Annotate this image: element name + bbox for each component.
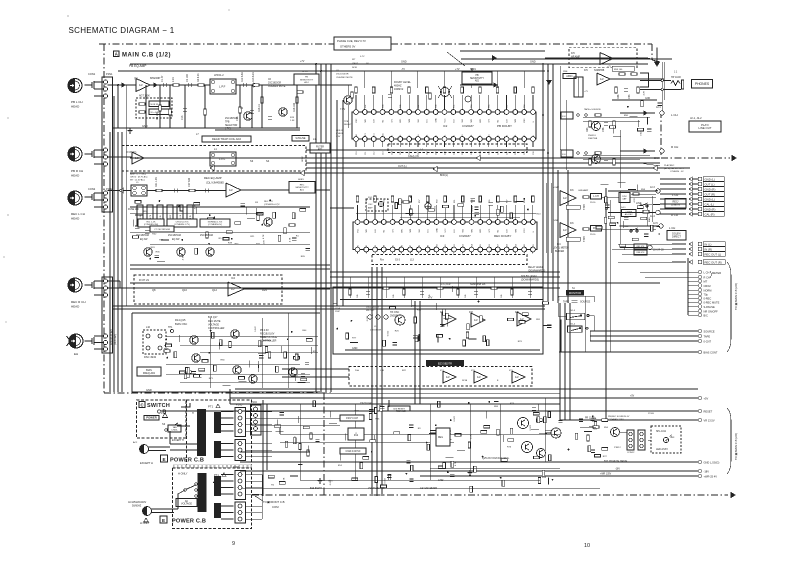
svg-text:IC4: IC4 — [231, 277, 236, 280]
vertical wires below IC3 to power section — [371, 267, 373, 496]
svg-text:PB L CH: PB L CH — [71, 100, 83, 104]
svg-text:WT : (1.3V AC): WT : (1.3V AC) — [130, 179, 145, 182]
op-amp IC1 L-ch — [136, 79, 150, 92]
svg-text:GT2: GT2 — [489, 229, 491, 233]
cue mute parts — [261, 97, 264, 103]
resistor column PB L — [159, 105, 162, 111]
IC3 top components — [356, 196, 359, 202]
svg-text:POWER C.B: POWER C.B — [172, 519, 206, 525]
svg-text:4.7K: 4.7K — [634, 198, 636, 203]
op-amp IC6 R meter buffer — [560, 223, 576, 238]
svg-text:0.022: 0.022 — [472, 205, 474, 211]
svg-text:PHONES: PHONES — [695, 82, 710, 86]
svg-text:W: W — [533, 135, 535, 137]
jack vertical bus — [661, 62, 663, 111]
svg-text:PLAY,REC: PLAY,REC — [664, 164, 675, 167]
connector group upper right pins — [689, 177, 692, 181]
svg-text:GND: GND — [530, 61, 536, 64]
svg-text:IC2: IC2 — [443, 124, 448, 128]
svg-text:SFTA: SFTA — [462, 379, 468, 382]
svg-text:1/2: 1/2 — [477, 375, 481, 379]
HX block frame — [333, 287, 543, 354]
svg-text:0.022: 0.022 — [367, 315, 369, 321]
svg-text:POWER: POWER — [146, 416, 157, 420]
arrow on y85 line at IC2 — [460, 84, 494, 86]
wire LPF to dolby — [236, 84, 300, 86]
svg-text:S1-4: S1-4 — [571, 324, 576, 326]
svg-text:J2-1, J2-2: J2-1, J2-2 — [690, 116, 702, 120]
board outline MAIN C.B left edge — [103, 44, 105, 393]
bias cont row — [698, 350, 702, 354]
svg-text:B4: B4 — [384, 245, 386, 247]
monitor long verticals — [605, 188, 607, 420]
wires into R CH block — [108, 287, 134, 289]
svg-text:4.7K: 4.7K — [284, 477, 286, 482]
svg-text:CS37 0.047: CS37 0.047 — [346, 418, 359, 420]
svg-text:SFR2: SFR2 — [302, 156, 304, 162]
transistor Q18 — [249, 375, 257, 383]
svg-text:(OTHERS:0V): (OTHERS:0V) — [208, 224, 222, 226]
op-amp IC6 L meter buffer — [560, 191, 576, 206]
svg-text:SFR1: SFR1 — [302, 71, 308, 73]
svg-text:TO ▣ MAIN C.B (2/2): TO ▣ MAIN C.B (2/2) — [734, 283, 738, 310]
svg-text:J2-2: J2-2 — [654, 157, 659, 160]
svg-text:DEAD TRAP COIL ADJ: DEAD TRAP COIL ADJ — [212, 137, 242, 141]
svg-text:Q8: Q8 — [152, 288, 156, 292]
cal osc circle cluster — [425, 203, 431, 209]
svg-text:TAPE: TAPE — [704, 334, 711, 338]
svg-text:0.022: 0.022 — [454, 415, 456, 421]
voltage reg transistor Q27 — [551, 428, 561, 438]
margin specks — [7, 117, 8, 118]
svg-text:C12: C12 — [374, 152, 376, 155]
svg-text:B27,2B MUTE DRIVE: B27,2B MUTE DRIVE — [604, 460, 628, 463]
dashed box L13 below IC3 — [372, 255, 527, 265]
svg-text:H ONLY: H ONLY — [178, 472, 188, 476]
transformer PT2 secondary winding A — [214, 476, 221, 496]
wires to meter rows — [640, 271, 698, 273]
svg-text:T2: T2 — [506, 135, 508, 137]
svg-text:NGT 100K: NGT 100K — [139, 96, 150, 98]
svg-text:CA1: CA1 — [381, 133, 384, 137]
svg-text:C10: C10 — [356, 152, 358, 155]
vertical wires right-bottom — [559, 303, 561, 420]
svg-text:CRO2 : (8.7V AC): CRO2 : (8.7V AC) — [130, 176, 148, 179]
svg-text:NOR W: NOR W — [151, 104, 159, 106]
svg-text:+5V: +5V — [630, 396, 635, 398]
wires lower opamp box — [282, 368, 349, 370]
IC3 top pins — [355, 220, 360, 225]
REC OUT wires below IC3 — [330, 271, 560, 273]
svg-text:HX OSC: HX OSC — [366, 310, 375, 312]
REC amp lower cluster — [247, 218, 255, 220]
svg-text:CAL(L) IN: CAL(L) IN — [408, 155, 419, 158]
svg-text:(OTHERS:1.7V): (OTHERS:1.7V) — [174, 224, 190, 226]
svg-text:CAL (R): CAL (R) — [705, 213, 715, 217]
label PHASE CUE note — [334, 37, 391, 50]
svg-text:R55: R55 — [489, 105, 491, 108]
label 9-PAUSE — [292, 136, 309, 142]
GND rail HX block — [345, 349, 540, 351]
svg-text:B11: B11 — [445, 244, 447, 247]
wire to J2-1 — [620, 112, 655, 114]
svg-text:B6: B6 — [401, 245, 403, 247]
svg-text:C13: C13 — [181, 115, 184, 120]
svg-text:LIM: LIM — [506, 229, 508, 233]
HP AMP dashed box — [569, 48, 637, 68]
svg-text:2TGB: 2TGB — [648, 413, 654, 415]
svg-text:150P: 150P — [335, 311, 340, 313]
svg-text:P1N4: P1N4 — [251, 402, 257, 404]
svg-text:1/2: 1/2 — [229, 188, 233, 192]
meter feedback rects — [566, 205, 580, 209]
svg-text:AMP: AMP — [368, 207, 373, 210]
svg-text:NF8: NF8 — [410, 229, 412, 233]
transformer PT2 secondary winding B — [214, 503, 221, 518]
svg-text:SWITCH: SWITCH — [147, 403, 170, 409]
svg-text:OTHERS 0V: OTHERS 0V — [340, 45, 355, 49]
svg-text:R CH LN: R CH LN — [139, 279, 149, 282]
power supply cluster parts — [426, 442, 428, 444]
board outline right exit with arrow — [661, 157, 730, 159]
svg-text:GND: GND — [645, 98, 650, 100]
connector P1N4 column right of power — [251, 405, 262, 435]
svg-text:(C)L NJM4558D: (C)L NJM4558D — [206, 182, 224, 185]
svg-text:R12 6.8K: R12 6.8K — [241, 72, 244, 82]
svg-text:R0M 8.2K: R0M 8.2K — [396, 411, 407, 413]
transistor Q4 — [279, 108, 287, 116]
svg-text:C45: C45 — [357, 295, 359, 298]
svg-text:L CH: L CH — [704, 270, 710, 274]
erase coil L10 block — [143, 330, 166, 354]
wire head to REC amp — [108, 190, 226, 192]
svg-text:S4-1: S4-1 — [621, 207, 626, 209]
svg-text:B16 Q17: B16 Q17 — [208, 316, 218, 319]
voltage reg transistor Q26 — [522, 442, 533, 453]
svg-text:J2-1: J2-1 — [656, 106, 661, 109]
transistor Q14 — [190, 336, 198, 344]
svg-text:TPB: TPB — [225, 122, 230, 124]
vertical bus right-center — [542, 64, 544, 301]
svg-text:B7: B7 — [410, 245, 412, 247]
vertical wires hp to lineout — [559, 66, 561, 150]
svg-text:B16: B16 — [489, 244, 491, 247]
above IC3 cluster — [458, 204, 464, 207]
svg-text:R58: R58 — [617, 94, 620, 99]
board outline MAIN bottom edge — [104, 392, 333, 394]
svg-text:CX20187: CX20187 — [459, 234, 471, 238]
svg-text:2SC1815GR: 2SC1815GR — [200, 235, 213, 237]
svg-text:B/C: B/C — [704, 313, 708, 317]
vertical wires center-bottom — [414, 301, 416, 404]
line out network S1-2 — [561, 150, 573, 157]
svg-text:SK1: SK1 — [418, 119, 420, 123]
svg-text:+7V: +7V — [428, 297, 433, 300]
labels under REC cluster — [138, 219, 164, 227]
svg-text:SPL-1011: SPL-1011 — [656, 431, 667, 433]
svg-text:R43: R43 — [382, 105, 384, 108]
svg-text:(THE B): (THE B) — [336, 133, 344, 135]
svg-text:C: C — [140, 403, 143, 408]
svg-text:B1: B1 — [357, 245, 359, 247]
svg-text:HP JACK: HP JACK — [671, 76, 681, 79]
L5 coil block — [131, 185, 147, 196]
svg-text:EXCEPT H: EXCEPT H — [172, 439, 184, 442]
REC R CH head — [68, 278, 82, 292]
svg-text:S1-2: S1-2 — [562, 154, 567, 156]
svg-text:2SK184GR: 2SK184GR — [370, 330, 381, 332]
right bracket upper — [727, 262, 731, 352]
svg-text:G25 RESET: G25 RESET — [393, 408, 406, 410]
svg-text:R14,Q15: R14,Q15 — [175, 318, 186, 322]
svg-text:TAPE⇒SOURCE: TAPE⇒SOURCE — [584, 108, 601, 111]
svg-text:IC7~,IC9: IC7~,IC9 — [440, 282, 451, 286]
svg-text:B9: B9 — [428, 245, 430, 247]
svg-text:ADJ: ADJ — [304, 81, 308, 84]
bottom band long wires — [235, 388, 698, 390]
svg-text:PB R CH: PB R CH — [71, 169, 83, 173]
svg-text:PBC: PBC — [356, 118, 358, 123]
svg-text:H1: H1 — [427, 135, 429, 137]
svg-text:ADJ: ADJ — [475, 80, 479, 83]
svg-text:BR2: BR2 — [480, 229, 482, 233]
wire R-ch amp to LPF — [144, 157, 210, 159]
svg-text:2.2K: 2.2K — [172, 77, 175, 82]
svg-text:CON2: CON2 — [88, 187, 96, 191]
svg-text:C45: C45 — [393, 295, 395, 298]
wires top right corner — [545, 57, 648, 59]
svg-text:L1: L1 — [453, 135, 455, 137]
svg-text:HP AMP: HP AMP — [571, 56, 580, 59]
bottom band wires left join — [229, 389, 231, 404]
meter wires — [602, 196, 656, 198]
svg-text:P1N6: P1N6 — [233, 466, 240, 469]
svg-text:Q12: Q12 — [212, 288, 217, 292]
svg-text:C30: C30 — [533, 152, 535, 155]
svg-text:IC9: IC9 — [515, 311, 519, 314]
svg-text:-18V: -18V — [615, 469, 620, 471]
svg-text:B18: B18 — [506, 244, 508, 247]
svg-text:1/2: 1/2 — [474, 318, 478, 322]
svg-text:1/2: 1/2 — [563, 196, 567, 200]
bias osc cluster — [268, 352, 271, 358]
IC3 bottom pins — [355, 247, 360, 252]
svg-text:C58: C58 — [602, 127, 605, 132]
transformer PT1 secondary winding A — [214, 412, 221, 433]
svg-text:160MV2: 160MV2 — [394, 88, 404, 91]
svg-text:BNC(L): BNC(L) — [440, 174, 448, 177]
svg-text:SK1: SK1 — [419, 229, 421, 233]
op-amp IC9a — [517, 312, 531, 326]
svg-text:S-PAUSE: S-PAUSE — [704, 305, 715, 309]
svg-text:TAPE: TAPE — [563, 301, 569, 304]
IC2 pin top components — [355, 87, 358, 93]
long wires below IC3 row2 — [130, 282, 660, 284]
svg-text:NJM4558 HX: NJM4558 HX — [470, 282, 486, 286]
+5V row — [698, 396, 702, 400]
transistor Q2 — [244, 112, 252, 120]
svg-text:NOR(1D,6F AC): NOR(1D,6F AC) — [110, 329, 113, 345]
top bus extension right — [461, 58, 672, 60]
label REC LINE IN — [665, 199, 686, 209]
svg-text:C15: C15 — [400, 152, 402, 155]
svg-text:BR1: BR1 — [400, 119, 402, 123]
warning triangle plug — [144, 518, 149, 522]
svg-text:REC EQ.AMP: REC EQ.AMP — [204, 176, 222, 180]
gray separator hatched bus — [173, 465, 252, 468]
label E POWER C.B lower — [160, 516, 167, 523]
svg-text:GND: GND — [142, 124, 148, 128]
svg-text:OUT (R): OUT (R) — [705, 193, 716, 197]
svg-text:REG: REG — [438, 437, 443, 439]
svg-text:CRO2: CRO2 — [704, 284, 712, 288]
svg-text:S3: S3 — [162, 422, 166, 426]
svg-text:S1-1: S1-1 — [562, 116, 567, 118]
wires primary left side — [170, 443, 197, 445]
svg-text:REC +2V: REC +2V — [264, 201, 273, 203]
svg-text:0-CNT: 0-CNT — [704, 339, 712, 343]
svg-text:NR ON/OFF: NR ON/OFF — [704, 309, 719, 313]
svg-text:R59 100: R59 100 — [614, 69, 623, 71]
wires mute area — [580, 426, 596, 428]
svg-text:CONTROLLER: CONTROLLER — [260, 340, 277, 343]
erase head EH — [69, 334, 83, 348]
label SWITCH C.B — [139, 402, 145, 408]
svg-text:C23: C23 — [471, 152, 473, 155]
resistor R80 — [633, 193, 639, 196]
op-amp IC7a — [442, 312, 456, 326]
wires rec line in — [608, 190, 656, 192]
svg-text:C20: C20 — [444, 152, 446, 155]
svg-text:R63: R63 — [586, 127, 589, 132]
board outline MAIN C.B right edge — [651, 44, 653, 60]
svg-text:NF1: NF1 — [365, 119, 367, 123]
svg-text:R29: R29 — [262, 288, 267, 292]
svg-text:H: H — [192, 412, 194, 415]
label E POWER C.B upper — [161, 455, 168, 462]
svg-text:C14: C14 — [391, 152, 393, 155]
svg-text:TO ▣ MAIN C.B (2/2): TO ▣ MAIN C.B (2/2) — [734, 433, 738, 460]
svg-text:RCO: RCO — [524, 228, 526, 233]
svg-text:P1N12: P1N12 — [614, 447, 621, 449]
svg-text:M5220P: M5220P — [150, 76, 161, 80]
mid horizontal wires — [306, 149, 545, 151]
svg-text:IN1: IN1 — [356, 134, 358, 137]
svg-text:0-REC: 0-REC — [704, 296, 712, 300]
svg-text:0.022: 0.022 — [384, 477, 386, 483]
svg-text:N1: N1 — [471, 135, 473, 137]
varicap right of dolby level — [465, 96, 471, 102]
svg-text:10: 10 — [584, 543, 590, 549]
svg-text:P1N5: P1N5 — [236, 404, 243, 407]
svg-text:OFF 0V: OFF 0V — [336, 130, 344, 132]
svg-text:A: A — [115, 52, 118, 57]
wire op-amp output — [150, 84, 352, 86]
svg-text:C25: C25 — [489, 152, 491, 155]
REC L CH head — [68, 191, 82, 205]
svg-text:DELAY LEVEL: DELAY LEVEL — [528, 266, 544, 269]
transistor Q17 — [233, 366, 241, 374]
svg-text:F1: F1 — [409, 135, 411, 137]
svg-text:C2LL H3 L17: C2LL H3 L17 — [366, 307, 380, 309]
switch chain verticals — [646, 204, 648, 226]
svg-text:T70B: T70B — [583, 236, 586, 242]
svg-text:C33A 0.047UF: C33A 0.047UF — [345, 450, 361, 453]
svg-text:S3: S3 — [250, 159, 254, 163]
feedback network box — [136, 98, 172, 118]
source tape rows — [698, 329, 702, 333]
svg-text:MAIN C.B (1/2): MAIN C.B (1/2) — [122, 53, 171, 59]
svg-text:-7V: -7V — [401, 68, 405, 71]
svg-text:GND: GND — [352, 347, 358, 350]
svg-text:SFR1: SFR1 — [470, 69, 477, 71]
svg-text:MONITOR: MONITOR — [569, 291, 581, 295]
svg-text:NF2: NF2 — [471, 229, 473, 233]
svg-text:0.022: 0.022 — [388, 330, 390, 336]
svg-text:V1: V1 — [524, 135, 526, 137]
svg-text:IC8: IC8 — [469, 311, 473, 314]
svg-text:C19: C19 — [436, 152, 438, 155]
down arrow after hp box — [656, 48, 658, 64]
svg-text:HEAD: HEAD — [71, 217, 80, 221]
black label box bias trap — [426, 360, 464, 366]
svg-text:0.022: 0.022 — [255, 326, 257, 332]
line out parallel wires L — [583, 116, 650, 118]
svg-text:R53: R53 — [384, 200, 386, 203]
svg-text:S3-3: S3-3 — [395, 260, 401, 262]
svg-text:C2 100: C2 100 — [186, 74, 189, 82]
monitor wires down — [560, 320, 562, 352]
svg-text:LV1: LV1 — [428, 229, 430, 232]
svg-text:LINE: LINE — [636, 202, 642, 205]
op-amp row lower 2 — [474, 371, 487, 383]
svg-text:S1-5: S1-5 — [571, 310, 576, 312]
svg-text:GT1: GT1 — [392, 229, 394, 233]
transformer PT1 primary winding — [197, 409, 206, 456]
wires above IC3 — [330, 207, 354, 209]
svg-text:70μ: 70μ — [704, 292, 709, 296]
wire to J2-2 — [620, 150, 655, 152]
svg-text:R53: R53 — [471, 105, 473, 108]
svg-text:REC L CH: REC L CH — [71, 212, 85, 216]
svg-text:2SC1815GR: 2SC1815GR — [168, 235, 181, 237]
hp area cluster — [658, 102, 662, 104]
svg-text:J2-3: J2-3 — [650, 186, 655, 189]
svg-text:B13 5627R: B13 5627R — [310, 487, 322, 490]
svg-text:L CH: L CH — [672, 193, 678, 197]
connector P1N6 upper — [235, 471, 246, 500]
reg IC box — [436, 428, 450, 446]
svg-text:C7 2SC1815GR: C7 2SC1815GR — [154, 229, 170, 231]
svg-text:B17: B17 — [498, 244, 500, 247]
parts row below IC3 — [349, 289, 352, 295]
wires bottom power — [230, 403, 560, 405]
transformer PT1 secondary winding B — [214, 441, 221, 458]
svg-text:CX20187: CX20187 — [462, 124, 474, 128]
svg-text:G24 2SA1530M: G24 2SA1530M — [420, 487, 437, 490]
svg-text:7.0V: 7.0V — [340, 108, 345, 111]
svg-text:L.P.F: L.P.F — [219, 85, 226, 89]
svg-text:VOLTAGE: VOLTAGE — [181, 503, 192, 506]
svg-text:4.7K: 4.7K — [263, 234, 265, 239]
svg-text:+5V: +5V — [704, 396, 709, 400]
sfr arrow — [471, 68, 473, 84]
vertical j2 connects — [619, 191, 621, 248]
svg-text:SOURCE: SOURCE — [580, 301, 591, 304]
svg-text:PHASE CUE, REV 0.7V: PHASE CUE, REV 0.7V — [337, 39, 366, 43]
J2-5 pin — [659, 224, 663, 228]
svg-text:1/2: 1/2 — [563, 228, 567, 232]
